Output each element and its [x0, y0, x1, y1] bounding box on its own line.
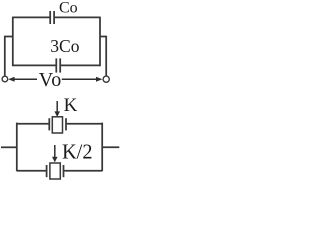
svg-text:3Co: 3Co — [50, 36, 79, 56]
svg-text:Co: Co — [59, 0, 78, 17]
svg-text:K/2: K/2 — [62, 140, 93, 164]
svg-text:K: K — [64, 95, 78, 116]
svg-text:Vo: Vo — [39, 69, 62, 91]
